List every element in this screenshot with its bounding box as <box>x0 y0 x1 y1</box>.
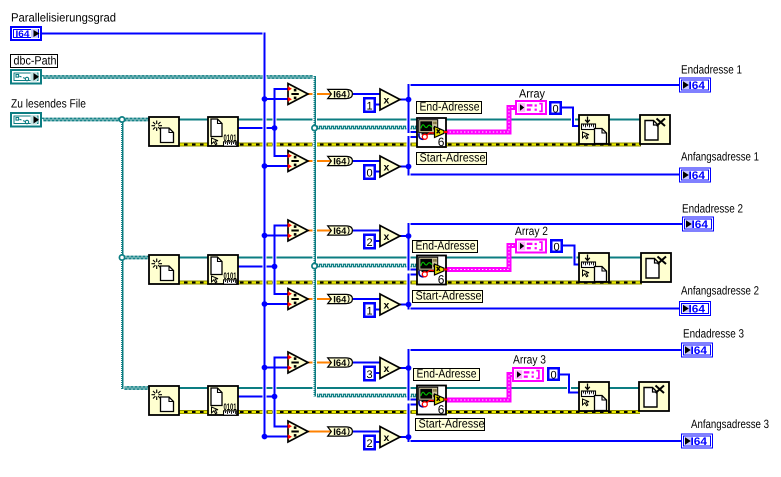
svg-text:I64: I64 <box>333 90 347 101</box>
svg-text:x: x <box>384 363 390 375</box>
svg-text:x: x <box>384 300 390 312</box>
svg-text:Anfangsadresse 3: Anfangsadresse 3 <box>691 417 769 431</box>
svg-text:End-Adresse: End-Adresse <box>420 100 480 114</box>
svg-text:Endadresse 2: Endadresse 2 <box>682 202 743 216</box>
svg-text:Start-Adresse: Start-Adresse <box>416 289 482 303</box>
svg-text:0: 0 <box>554 241 560 253</box>
svg-text:End-Adresse: End-Adresse <box>417 367 477 381</box>
svg-text:Parallelisierungsgrad: Parallelisierungsgrad <box>11 11 116 25</box>
svg-text:0: 0 <box>551 369 557 381</box>
svg-text:I64: I64 <box>692 219 709 231</box>
svg-text:I64: I64 <box>16 29 31 40</box>
svg-text:x: x <box>384 432 390 444</box>
svg-text:1: 1 <box>367 305 373 317</box>
svg-text:6: 6 <box>438 135 445 149</box>
svg-text:2: 2 <box>367 237 373 249</box>
svg-text:x: x <box>384 95 390 107</box>
svg-text:End-Adresse: End-Adresse <box>416 239 476 253</box>
svg-text:1: 1 <box>367 100 373 112</box>
svg-text:2: 2 <box>367 438 373 450</box>
svg-text:Anfangsadresse 1: Anfangsadresse 1 <box>681 150 759 164</box>
svg-text:6: 6 <box>438 403 445 417</box>
svg-text:I64: I64 <box>333 157 347 168</box>
svg-text:Array: Array <box>519 87 545 101</box>
svg-text:Start-Adresse: Start-Adresse <box>419 417 485 431</box>
svg-text:Zu lesendes File: Zu lesendes File <box>11 97 86 111</box>
svg-text:Array 3: Array 3 <box>513 353 546 367</box>
svg-text:Start-Adresse: Start-Adresse <box>420 151 486 165</box>
svg-text:Array 2: Array 2 <box>515 224 548 238</box>
svg-text:I64: I64 <box>691 436 708 448</box>
svg-text:3: 3 <box>367 369 373 381</box>
svg-text:Endadresse 1: Endadresse 1 <box>681 63 742 77</box>
svg-text:I64: I64 <box>689 304 706 316</box>
svg-text:Endadresse 3: Endadresse 3 <box>683 327 744 341</box>
svg-text:6: 6 <box>438 273 445 287</box>
svg-text:I64: I64 <box>333 427 347 438</box>
svg-text:0: 0 <box>367 167 373 179</box>
svg-text:I64: I64 <box>689 80 706 92</box>
svg-text:Anfangsadresse 2: Anfangsadresse 2 <box>681 284 759 298</box>
svg-text:x: x <box>384 162 390 174</box>
svg-text:I64: I64 <box>333 358 347 369</box>
svg-text:I64: I64 <box>333 226 347 237</box>
svg-text:0: 0 <box>553 103 559 115</box>
svg-text:dbc-Path: dbc-Path <box>14 54 57 68</box>
svg-text:I64: I64 <box>333 295 347 306</box>
svg-text:x: x <box>384 231 390 243</box>
svg-text:I64: I64 <box>691 345 708 357</box>
svg-text:I64: I64 <box>689 170 706 182</box>
